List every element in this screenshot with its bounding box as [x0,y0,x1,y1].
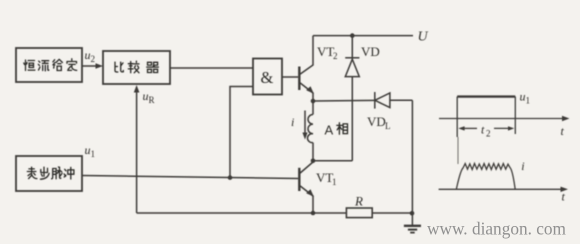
svg-text:L: L [385,121,391,131]
svg-text:R: R [149,95,155,105]
svg-text:VD: VD [367,114,386,129]
svg-text:VT: VT [317,44,334,59]
svg-text:i: i [521,159,524,173]
svg-text:VD: VD [361,44,380,59]
svg-text:&: & [261,68,274,87]
svg-text:1: 1 [91,149,96,159]
svg-text:2: 2 [91,54,96,64]
svg-text:VT: VT [316,170,333,185]
svg-text:i: i [291,115,294,129]
svg-text:R: R [354,194,363,209]
svg-text:U: U [418,30,429,45]
svg-text:A: A [325,123,334,138]
svg-text:1: 1 [526,96,531,106]
svg-text:www. diangon. com: www. diangon. com [427,219,566,239]
svg-text:2: 2 [333,51,338,61]
svg-text:1: 1 [332,177,337,187]
svg-text:2: 2 [486,129,491,139]
